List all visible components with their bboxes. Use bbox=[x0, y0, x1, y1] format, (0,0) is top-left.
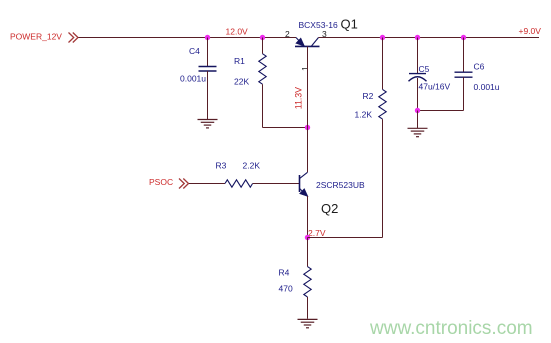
net label 2.7V bbox=[308, 228, 326, 238]
svg-text:2: 2 bbox=[285, 29, 290, 39]
Q1 emitter arrow bbox=[296, 38, 305, 46]
junction node 2.7V bbox=[305, 235, 310, 240]
svg-text:R2: R2 bbox=[363, 91, 374, 101]
capacitor C5 (polarized) bbox=[409, 38, 451, 111]
ground below C4 bbox=[198, 120, 218, 128]
svg-text:1.2K: 1.2K bbox=[355, 109, 373, 119]
junction at C5 top bbox=[415, 35, 420, 40]
net label PSOC bbox=[149, 177, 173, 187]
svg-text:22K: 22K bbox=[234, 76, 249, 86]
net label 11.3V (rotated) bbox=[294, 87, 304, 109]
svg-text:R1: R1 bbox=[234, 56, 245, 66]
svg-text:11.3V: 11.3V bbox=[294, 87, 304, 109]
junction C5 bottom bbox=[415, 108, 420, 113]
svg-text:12.0V: 12.0V bbox=[226, 27, 249, 37]
svg-text:R3: R3 bbox=[216, 161, 227, 171]
svg-text:Q1: Q1 bbox=[341, 16, 358, 31]
svg-text:Q2: Q2 bbox=[321, 201, 338, 216]
transistor Q2 (2SCR523UB NPN) bbox=[300, 172, 365, 216]
wire PSOC to R3 bbox=[189, 183, 225, 185]
svg-text:1: 1 bbox=[300, 66, 310, 71]
ground below C5 bbox=[408, 111, 428, 137]
svg-text:www.cntronics.com: www.cntronics.com bbox=[369, 318, 533, 339]
resistor R4 bbox=[279, 238, 312, 319]
svg-text:2.2K: 2.2K bbox=[243, 161, 261, 171]
junction node 12.0V at R1 bbox=[260, 35, 265, 40]
wire Q2 emitter to node 2.7V bbox=[307, 196, 309, 238]
svg-text:BCX53-16: BCX53-16 bbox=[299, 20, 338, 30]
resistor R2 bbox=[355, 38, 387, 238]
capacitor C4 bbox=[180, 38, 217, 120]
svg-text:R4: R4 bbox=[279, 268, 290, 278]
wire Q1 base to Q2 collector bbox=[307, 47, 309, 173]
wire node 2.7V to R2 bottom bbox=[308, 237, 383, 239]
wire R1 bottom to Q1 base node bbox=[263, 127, 308, 129]
svg-text:C6: C6 bbox=[474, 62, 485, 72]
junction Q1 base / R1 node bbox=[305, 125, 310, 130]
watermark www.cntronics.com bbox=[369, 318, 533, 339]
Q1 base bar bbox=[295, 45, 320, 47]
Q2 collector bbox=[300, 172, 308, 178]
wire Q1 pin 3 to +9.0V bbox=[319, 37, 540, 39]
wire R3 to Q2 base bbox=[253, 183, 300, 185]
net label 12.0V bbox=[226, 27, 249, 37]
Q2 emitter bbox=[300, 188, 308, 196]
Q1 emitter (pin 2) bbox=[296, 38, 304, 46]
Q1 collector (pin 3) bbox=[312, 38, 319, 47]
svg-text:470: 470 bbox=[279, 284, 293, 294]
svg-text:47u/16V: 47u/16V bbox=[419, 82, 451, 92]
net label +9.0V bbox=[519, 26, 542, 36]
port POWER_12V bbox=[69, 33, 79, 43]
svg-text:C4: C4 bbox=[189, 46, 200, 56]
svg-text:+9.0V: +9.0V bbox=[519, 26, 542, 36]
svg-text:0.001u: 0.001u bbox=[180, 73, 206, 83]
junction at R2 top bbox=[380, 35, 385, 40]
svg-text:2.7V: 2.7V bbox=[308, 228, 326, 238]
svg-text:C5: C5 bbox=[419, 64, 430, 74]
junction node 12.0V at C4 bbox=[205, 35, 210, 40]
net label POWER_12V bbox=[10, 32, 62, 42]
svg-text:PSOC: PSOC bbox=[149, 177, 173, 187]
resistor R1 bbox=[234, 38, 266, 128]
svg-text:0.001u: 0.001u bbox=[474, 82, 500, 92]
Q2 base bar bbox=[299, 175, 301, 192]
wire C5 bottom to C6 bottom bbox=[418, 110, 464, 112]
svg-text:POWER_12V: POWER_12V bbox=[10, 32, 62, 42]
transistor Q1 (BCX53-16 PNP) bbox=[285, 16, 358, 71]
junction at C6 top bbox=[461, 35, 466, 40]
capacitor C6 bbox=[455, 38, 500, 111]
wire POWER_12V to Q1 pin 2 bbox=[79, 37, 297, 39]
svg-text:2SCR523UB: 2SCR523UB bbox=[316, 180, 365, 190]
Q2 emitter arrow bbox=[300, 189, 308, 197]
resistor R3 bbox=[216, 161, 261, 188]
ground below R4 bbox=[298, 319, 318, 327]
port PSOC bbox=[179, 179, 189, 189]
